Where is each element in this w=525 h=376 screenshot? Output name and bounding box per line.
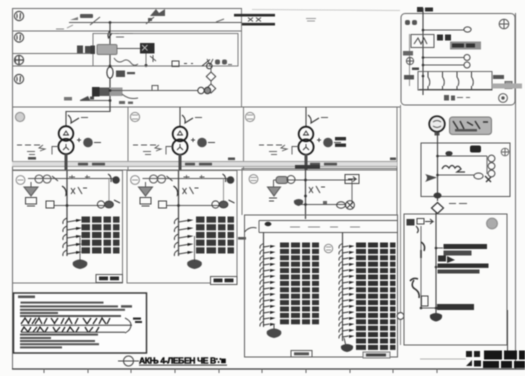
cross wire [167,205,219,207]
drop wire right [108,179,110,206]
ground termination [73,259,88,269]
label EL [444,95,470,101]
wire window to contact [117,48,140,50]
wire y65 [423,64,464,66]
feeder column 1 branches [260,244,270,327]
cable to bus [305,154,308,170]
junction dots bus [109,89,112,92]
bottom blob in aux box [434,193,442,199]
divider T2/T3 [243,107,245,170]
bus transition double-bar [234,15,275,24]
ground blob dist [430,313,442,322]
panel tag box A [96,275,123,283]
disconnector Q1 [68,115,79,123]
notes tail lines [20,334,99,349]
transformer bay 3 [259,107,341,170]
switch on bus [108,31,112,39]
revision circle [118,356,139,366]
panel box [245,215,398,357]
top cluster dark [438,256,455,264]
spare drop wire [194,236,196,261]
section B box [127,171,237,284]
CT rings [35,175,58,183]
cable to bus [179,154,182,170]
dashed label [115,34,133,38]
gray marker circle [487,218,498,229]
faint line left of title [420,358,466,360]
CT cylinder [276,177,288,184]
label above line left [70,14,93,20]
title row 1 tag [466,351,480,357]
transformer T1 [58,126,73,154]
label 60A [403,51,413,56]
divider T1/T2 [127,107,129,170]
cable tag marks right [335,137,346,147]
label CA92 [77,46,92,54]
cable to bus [65,154,68,170]
row right edge [396,107,398,170]
top-left cluster [407,219,434,234]
tie mark between B and C [238,237,246,240]
right meters [212,200,235,208]
marker circle B [131,176,140,185]
tag above C [295,165,320,169]
switch hooks left [421,242,425,258]
blocked breaker [337,201,355,210]
shaded bar dark part [100,88,110,97]
dark mark left of window [91,46,96,55]
feeder group box [418,72,492,91]
oval element [474,173,483,179]
dark contact block [140,43,155,54]
dark fuse block [470,146,481,153]
panel bus duct [259,221,398,233]
generator name plate [450,117,492,135]
dashed control line [259,145,287,151]
branch arrows [188,219,194,254]
wire row C [93,65,212,67]
motor scribble [442,166,465,173]
notes lines [20,302,132,317]
junction dots dist [435,247,438,250]
transformer bay 1 [17,107,110,170]
title row 2 blocks [483,361,525,368]
wire y175 [438,174,475,176]
left box [159,201,167,208]
ring on edge wire [397,313,404,320]
left arrow [425,174,437,182]
group bottom bus [419,89,492,91]
title row 1 blocks [484,351,525,360]
junction dot [109,65,112,68]
gen feeder vertical [437,132,439,201]
transformer T3 [298,127,313,155]
end circle [464,55,470,61]
label flag mid [148,9,165,21]
label YBB [207,59,232,65]
small box [422,296,429,306]
shaded bar [100,88,123,97]
feeder main vertical [66,171,68,257]
ground termination col1 [267,324,282,338]
indicator circle [499,94,508,103]
slash through line at label1 [90,17,100,25]
surge arrester C [268,187,281,201]
relay marks [71,187,87,194]
svg-text:АКЊ 4-ЛЕБЕН ЧЕ В∵■: АКЊ 4-ЛЕБЕН ЧЕ В∵■ [139,356,226,366]
load label grid C1 [280,243,319,325]
dark mark [485,176,491,182]
faint line to right box [252,10,400,11]
right branch wire [306,180,353,205]
earth small [406,57,413,64]
right meters [97,200,120,208]
ground termination [187,259,202,269]
surge arrester FV [139,182,153,206]
load label grid C2 [356,243,396,350]
node circle 4 [14,74,23,83]
wire left jog [166,147,173,155]
small marks right of bus [119,101,133,104]
breaker hook [174,186,179,195]
earth circle top right [499,19,509,29]
panel tag box B [211,277,238,285]
breaker hook [62,186,67,195]
earth right small [501,148,509,156]
left rail [409,34,411,86]
blob on stub [80,96,94,100]
notes formula rows [21,318,132,333]
outgoing shaded bus [492,84,522,89]
section marker circle 7 [245,112,254,121]
generator G1 [429,116,445,135]
X marks between bars [248,18,261,22]
wire down [179,107,181,127]
relay box K1 [93,34,238,67]
diamond link [432,203,468,214]
aux bus vertical [422,8,424,95]
underline of drawing number [139,365,227,366]
transformer T2 [172,127,187,155]
label WF [437,35,451,41]
cross wire [54,205,104,207]
row line C [12,65,93,67]
incoming vertical C [305,170,307,219]
end circle [464,62,470,68]
node circle 2 [14,33,23,42]
main bus vertical [109,23,111,112]
bottom border line [12,368,525,370]
section marker circle 6 [130,112,139,121]
surge arrester FV [24,182,38,206]
section marker circle 5 [15,112,24,121]
junction dots C [304,179,307,182]
end breaker [108,174,120,184]
marker circle A [16,176,25,185]
wire y156 [438,155,488,157]
shaded relay window [97,45,117,55]
left box [46,201,54,208]
wire left jog [292,147,299,155]
section C box [242,169,397,216]
panel tag box C2 [363,352,390,358]
end circles [198,87,211,93]
title row 2 tag [466,360,481,367]
wavy marks under relay [114,55,156,65]
junction dots aux [436,155,439,158]
disconnector Q2 [182,115,193,123]
wire row D [110,90,198,92]
relay marks C [309,186,325,193]
aux distribution box [421,143,510,197]
handwritten mark under line start [56,25,73,29]
label ShU above [417,7,433,12]
row bottom line [12,169,397,171]
tick on line [216,19,224,22]
group feeder switches [428,72,473,90]
column divider [241,9,243,107]
busbar B [143,178,229,180]
end breaker [223,174,235,184]
ground termination col2 [341,338,353,352]
col2 arrows [349,245,355,338]
panel tag box C1 [291,351,312,358]
incoming vertical [435,212,437,316]
dashed control line [133,145,161,151]
shaded name bar [450,42,481,50]
dashed control line [17,145,45,151]
marker circle col1 [324,244,332,252]
curve mark [122,94,138,99]
branch rows [63,218,76,256]
shaded sq [505,82,512,89]
coil circles right [487,155,495,177]
aux box U10 [401,14,515,106]
junction dot [66,204,69,207]
cable entry hook [245,228,257,233]
right column edge wire [400,105,402,345]
dark CT square [92,87,100,97]
label GL [405,20,417,25]
small label [64,97,72,101]
node circle 1 [14,11,23,20]
label 4 [323,201,327,204]
meter box [411,35,434,48]
notes box frame [14,293,147,353]
tick marks [69,175,90,179]
row line A [12,30,242,32]
contact square [172,61,179,67]
section A box [13,171,123,284]
label 4B [404,75,414,80]
branch y267 [438,264,489,274]
dash [412,68,419,71]
meter circle [287,176,295,184]
disconnect hook [202,60,212,69]
lower cross wire [296,204,345,206]
junction dot relay [145,64,148,67]
sub vertical [420,226,422,308]
arrow box [345,175,359,184]
tick marks [184,175,205,179]
disconnector Q3 [308,115,319,123]
wire down [305,107,307,127]
marker circle C [249,175,258,184]
branch y308 [421,304,474,310]
bus label strip [12,157,397,167]
blob on wire [445,151,452,156]
label 4B right [493,75,504,79]
label Sh [116,71,135,78]
spare drop wire [79,236,81,261]
ground blob C [294,199,303,206]
busbar A [28,178,114,180]
node circle 3 [14,55,23,64]
notes header [18,296,35,299]
wire y180 left [274,179,306,181]
row line B [12,53,93,55]
wire: incoming overhead line [69,22,242,24]
branch rows [174,218,187,256]
dash marks [184,63,193,65]
wire jog from bus [66,107,110,127]
wire y57 [423,57,464,59]
transformer bay 2 [133,107,215,170]
diamond column wire [210,66,212,92]
fuse on bus [107,67,113,78]
wire stub row E [80,100,110,102]
relay drop wire [145,54,147,66]
CT + meter cluster [317,138,321,142]
row boundary line [12,106,400,108]
branch arrows [76,219,82,254]
wire y30 [423,29,464,31]
CT + meter cluster [77,138,81,142]
junction dots aux bus [422,29,425,32]
slash through line at label2 [146,17,154,24]
relay marks [183,187,199,194]
arrester drop [273,180,275,187]
feeder main vertical [178,171,180,257]
load label grid B [196,217,234,254]
dist box [404,214,507,345]
CT rings [150,175,173,183]
feeder column 2 branches [339,244,349,339]
small contact sq [152,86,158,91]
feeder column 1 riser [263,233,265,328]
drop wire right [223,179,225,206]
branch y248 [436,244,487,256]
end oval [464,27,471,32]
CT + meter cluster [191,138,195,142]
diamond contact 2 [206,84,215,93]
load label grid A [82,217,120,254]
border ticks [44,369,437,373]
bus dot [265,222,272,226]
wire left jog [52,147,59,155]
title block divider [507,310,509,352]
diamond contact 1 [206,72,215,81]
bus marks [290,226,360,228]
junction dot [109,21,112,24]
feeder column 2 riser [342,233,344,342]
col1 arrows [270,245,276,326]
junction dot [177,204,180,207]
notes formula tail mark [133,318,142,324]
faint mark near top middle [306,19,316,22]
